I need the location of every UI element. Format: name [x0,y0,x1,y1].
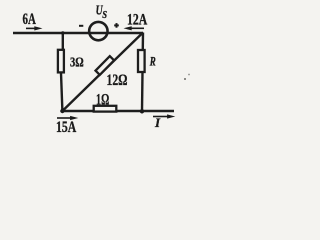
svg-text:12Ω: 12Ω [107,72,128,89]
svg-text:15A: 15A [56,119,77,136]
svg-text:S: S [102,9,107,21]
svg-text:1Ω: 1Ω [96,92,109,109]
svg-text:3Ω: 3Ω [70,55,84,70]
svg-text:I: I [154,115,161,130]
svg-text:6A: 6A [23,11,37,28]
svg-text:R: R [149,54,156,69]
svg-text:12A: 12A [127,11,148,28]
